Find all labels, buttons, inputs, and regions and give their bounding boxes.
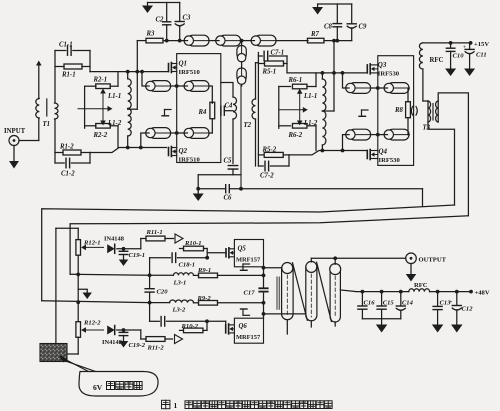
ground stub left: [78, 289, 92, 299]
wire node to gate Q3: [287, 56, 367, 73]
wire gate3 to bead row: [343, 73, 346, 88]
svg-text:Q6: Q6: [239, 323, 248, 330]
svg-text:C5: C5: [224, 158, 233, 165]
capacitor C2: [156, 3, 171, 41]
ferrite bead rail C: [251, 35, 276, 46]
transistor Q1: [169, 60, 201, 77]
resistor R11-1: [141, 229, 174, 249]
svg-text:R1-1: R1-1: [61, 72, 76, 79]
capacitor C5: [224, 119, 238, 175]
resistor R5-1: [258, 61, 287, 76]
capacitor C20: [145, 258, 168, 322]
resistor R8: [394, 102, 410, 118]
svg-text:RFC: RFC: [414, 282, 428, 289]
wire T3 secondary top to final: [438, 93, 468, 216]
wire R8 to bead row4: [407, 118, 409, 135]
resistor R10-2: [180, 321, 208, 332]
capacitor C7-1: [258, 50, 287, 61]
capacitor C19-2: [119, 328, 146, 349]
wire stage1 out to T2: [221, 83, 233, 98]
svg-text:R5-2: R5-2: [262, 146, 277, 153]
resistor R10-1: [180, 240, 208, 251]
capacitor C17: [244, 288, 268, 296]
svg-text:C19-2: C19-2: [129, 342, 146, 349]
inductor L1-1 stage2: [303, 73, 326, 111]
wire top ground rail stage2: [318, 3, 352, 5]
callout text 6V: [93, 382, 142, 393]
transformer T3: [423, 101, 439, 132]
ferrite bead stage1 top-left: [146, 81, 171, 92]
wire R4 to bead row2: [211, 119, 213, 133]
svg-text:C6: C6: [224, 195, 233, 202]
svg-text:RFC: RFC: [430, 57, 444, 64]
callout bubble: [79, 372, 158, 397]
svg-text:C19-1: C19-1: [129, 252, 145, 259]
svg-text:R11-2: R11-2: [147, 345, 165, 352]
svg-text:+: +: [463, 46, 466, 51]
winding diagonal 1: [293, 263, 308, 321]
svg-text:IN4148: IN4148: [102, 339, 122, 346]
svg-text:L1-2: L1-2: [107, 120, 122, 127]
svg-text:C12: C12: [462, 306, 474, 313]
resistor R1-1: [55, 64, 90, 79]
ferrite bead stage1 bottom-right: [184, 128, 209, 139]
svg-text:C14: C14: [402, 300, 414, 307]
resistor R6-1: [279, 73, 316, 89]
ground C10: [445, 69, 456, 77]
resistor R2-2: [85, 124, 118, 148]
wire top ground rail: [148, 2, 180, 4]
svg-text:L3-2: L3-2: [172, 307, 187, 314]
winding diagonal 2: [317, 262, 332, 321]
wire between beads row3: [371, 86, 385, 90]
svg-text:+: +: [450, 301, 453, 306]
inductor L1-2 stage2: [303, 111, 326, 151]
svg-text:C9: C9: [359, 24, 368, 31]
svg-text:+48V: +48V: [475, 290, 490, 297]
inductor L1-2 stage1: [107, 109, 131, 148]
ferrite bead stage2 top-right: [384, 83, 409, 94]
wire node to gate Q4: [289, 151, 367, 167]
svg-text:+15V: +15V: [474, 41, 489, 48]
+48V rail: [356, 290, 490, 297]
wire between beads row1: [171, 84, 185, 88]
svg-text:R6-1: R6-1: [288, 77, 303, 84]
resistor R4: [198, 102, 215, 119]
inductor L3-1: [173, 273, 194, 287]
capacitor C6: [198, 185, 422, 202]
svg-text:Q1: Q1: [179, 60, 188, 68]
arrow R11-2: [175, 335, 183, 344]
wire bead row2 right: [209, 132, 212, 134]
wire bead to R8: [408, 88, 409, 102]
junction dots gate3 wire: [321, 71, 345, 75]
svg-text:IRF510: IRF510: [179, 69, 201, 76]
ground below OUTPUT: [406, 264, 417, 282]
svg-text:L1-1: L1-1: [303, 93, 317, 100]
output transformer sleeve 1: [282, 263, 294, 335]
core hatch lines: [277, 277, 281, 309]
resistor R9-1: [194, 267, 264, 278]
wire 6V bias rail: [56, 228, 78, 343]
wire between beads row4: [371, 133, 385, 137]
output transformer sleeve 2: [306, 258, 317, 327]
capacitor C11: [463, 43, 487, 69]
junction dots gate2 wire: [126, 146, 143, 150]
svg-text:C10: C10: [453, 53, 465, 60]
svg-text:IRF530: IRF530: [379, 157, 401, 164]
wire feed line B: [42, 205, 455, 301]
vertical bead stack lower: [237, 62, 246, 86]
svg-text:MRF157: MRF157: [236, 334, 261, 341]
svg-text:C8: C8: [324, 24, 333, 31]
svg-text:R4: R4: [198, 109, 208, 116]
wire row L3-2: [42, 300, 170, 304]
RFC choke stage2: [419, 43, 443, 101]
trimmer wiper R6-1/R6-2: [279, 87, 308, 129]
output transformer sleeve 3: [330, 258, 341, 326]
callout pointer: [60, 356, 98, 373]
wire transformer to rail: [340, 290, 356, 292]
svg-text:C16: C16: [364, 299, 376, 306]
caption figure title: [162, 400, 333, 410]
transistor Q4: [367, 148, 400, 165]
svg-text:R3: R3: [146, 31, 156, 38]
ferrite bead stage2 bottom-left: [346, 129, 371, 140]
wire bus to transformer top: [264, 267, 282, 269]
drain bus: [262, 266, 266, 318]
ground top-left: [142, 3, 153, 14]
capacitor C7-2: [258, 161, 289, 179]
resistor R5-2: [258, 146, 289, 157]
resistor R12-2: [76, 320, 104, 355]
svg-text:L1-2: L1-2: [303, 120, 318, 127]
wire between beads row2: [171, 131, 185, 135]
diode IN4148 lower: [102, 326, 141, 347]
6V regulator block: [40, 344, 67, 362]
ground below input: [9, 146, 19, 169]
wire feed line A: [70, 216, 468, 274]
svg-text:R10-1: R10-1: [184, 240, 201, 247]
inductor L3-2: [170, 300, 194, 314]
wire gate4 to bead row4: [343, 135, 346, 151]
capacitor C15: [377, 292, 394, 319]
resistor R2-1: [85, 72, 118, 89]
capacitor C18-2: [150, 317, 226, 327]
stage1 module box: [177, 54, 221, 163]
svg-text:C1-1: C1-1: [59, 42, 73, 49]
capacitor C14: [396, 292, 413, 319]
svg-text:R6-2: R6-2: [288, 132, 303, 139]
svg-text:C7-2: C7-2: [260, 173, 274, 180]
capacitor C19-1: [119, 247, 145, 266]
INPUT connector J1: [4, 128, 26, 146]
svg-text:INPUT: INPUT: [4, 128, 26, 135]
junction dots gate1 wire: [126, 70, 144, 74]
ground at C6 line: [193, 187, 204, 201]
wire rail to R7: [276, 40, 308, 42]
svg-text:L1-1: L1-1: [107, 93, 121, 100]
svg-text:R10-2: R10-2: [181, 323, 199, 330]
chassis ground stage1: [162, 110, 171, 116]
svg-text:C20: C20: [157, 288, 169, 295]
ferrite bead rail A: [184, 35, 209, 46]
svg-text:Q5: Q5: [238, 246, 247, 253]
resistor R12-1: [76, 228, 104, 321]
wire regulator to R12-2: [67, 353, 78, 355]
vertical bead stack upper: [237, 41, 246, 62]
svg-text:T3: T3: [423, 125, 431, 132]
wire rail A-B: [209, 40, 216, 42]
svg-text:T1: T1: [43, 121, 51, 128]
Q5 module box: [234, 240, 263, 267]
svg-text:C18-1: C18-1: [179, 262, 195, 269]
RFC choke output: [409, 282, 430, 292]
capacitor C1-2: [55, 158, 90, 177]
ferrite bead stage2 top-left: [346, 83, 371, 94]
svg-text:T2: T2: [244, 122, 252, 129]
svg-text:6V: 6V: [93, 383, 103, 392]
chassis ground stage2: [359, 110, 368, 116]
svg-text:IRF530: IRF530: [378, 71, 400, 78]
ground top stage2: [312, 4, 323, 15]
Q6 module box: [234, 318, 263, 343]
ferrite bead stage1 bottom-left: [146, 128, 171, 139]
capacitor C10: [446, 43, 464, 69]
svg-text:C11: C11: [476, 52, 487, 59]
svg-text:R1-2: R1-2: [59, 144, 74, 151]
capacitor C4: [219, 103, 233, 116]
svg-text:R2-1: R2-1: [93, 77, 108, 84]
svg-text:R2-2: R2-2: [93, 132, 108, 139]
wire RFC to T3: [423, 100, 428, 102]
svg-text:C17: C17: [244, 289, 256, 296]
signal arrow into T1: [36, 61, 42, 99]
bias tap rail to L1 stage2: [322, 41, 334, 111]
trimmer wiper R2-1/R2-2: [78, 86, 113, 128]
wire C5 to ground line: [198, 175, 243, 191]
transformer T2: [233, 63, 258, 189]
capacitor C1-1: [55, 42, 90, 56]
transistor Q5: [226, 246, 261, 264]
transistor Q2: [169, 147, 201, 164]
svg-text:C15: C15: [383, 299, 395, 306]
svg-text:R7: R7: [310, 31, 320, 38]
chassis ground Q6: [241, 309, 250, 315]
common ground C14-16: [362, 319, 400, 333]
wire gate1 to bead row1: [142, 72, 146, 86]
resistor R7: [307, 31, 351, 43]
wire node R1-2/C1-2 to gate Q2: [55, 148, 167, 164]
chassis ground Q5: [241, 264, 250, 270]
svg-text:R9-2: R9-2: [197, 295, 212, 302]
svg-text:Q2: Q2: [179, 147, 188, 155]
resistor R9-2: [194, 295, 264, 305]
+15V rail: [423, 41, 489, 48]
svg-text:MRF157: MRF157: [236, 257, 261, 264]
capacitor C16: [358, 292, 375, 319]
svg-text:Q4: Q4: [379, 148, 388, 156]
resistor R3: [137, 31, 184, 43]
transformer T1: [36, 51, 58, 153]
resistor R6-2: [279, 124, 316, 151]
transistor Q6: [226, 323, 261, 341]
ferrite bead stage2 bottom-right: [384, 129, 409, 140]
ferrite bead rail B: [216, 35, 241, 46]
svg-text:R12-2: R12-2: [83, 320, 101, 327]
svg-text:R9-1: R9-1: [197, 267, 211, 274]
ferrite bead stage1 top-right: [184, 81, 209, 92]
wire row L3-1: [70, 273, 173, 278]
junction dots gate4 wire: [321, 149, 345, 153]
svg-text:R11-1: R11-1: [146, 229, 163, 236]
transistor Q3: [367, 61, 399, 78]
arrow R11-1: [175, 234, 183, 243]
capacitor C18-1: [150, 253, 208, 269]
svg-text:C3: C3: [183, 15, 192, 22]
svg-text:R5-1: R5-1: [262, 69, 277, 76]
svg-text:C2: C2: [156, 17, 165, 24]
wire bead row1 to R4: [209, 86, 212, 103]
wire rail B-C: [240, 39, 251, 43]
wire to OUTPUT: [311, 256, 405, 260]
wire bead row4 right: [408, 134, 409, 136]
svg-text:R8: R8: [394, 107, 404, 114]
resistor R11-2: [141, 330, 173, 352]
svg-text:C4: C4: [225, 103, 234, 110]
wire gate2 to bead row2: [141, 133, 146, 148]
svg-text:1: 1: [174, 401, 178, 410]
capacitor across stage2 output: [411, 107, 417, 116]
capacitor C9: [347, 4, 367, 41]
svg-text:Q3: Q3: [378, 61, 387, 69]
wire R10-1 to gate Q5: [205, 249, 226, 260]
wire to gate Q6: [225, 321, 227, 329]
capacitor C13: [432, 292, 451, 333]
svg-text:C1-2: C1-2: [61, 171, 75, 178]
wire node C1-1/R1-1 to gate Q1: [90, 51, 169, 72]
bias tap from R3 to L1 center: [128, 41, 138, 110]
OUTPUT connector: [406, 253, 447, 264]
capacitor C12: [450, 292, 474, 333]
svg-text:C7-1: C7-1: [271, 50, 285, 57]
ground C11: [464, 69, 475, 77]
wire jog to input feed line: [422, 189, 424, 207]
inductor L1-1 stage1: [107, 72, 131, 109]
wire bus to transformer bottom: [264, 313, 306, 315]
stage2 module box: [378, 56, 414, 166]
wire input to T1: [19, 140, 39, 142]
capacitor C3: [175, 3, 191, 41]
wire T3 secondary bottom to final: [428, 122, 455, 205]
svg-text:OUTPUT: OUTPUT: [419, 257, 447, 264]
resistor R1-2: [55, 144, 90, 156]
svg-text:IRF510: IRF510: [179, 157, 201, 164]
svg-text:IN4148: IN4148: [104, 236, 124, 243]
capacitor C8: [324, 4, 342, 41]
diode IN4148 upper: [104, 236, 141, 254]
wire T2 secondary bus: [257, 53, 259, 167]
svg-text:L3-1: L3-1: [173, 280, 187, 287]
